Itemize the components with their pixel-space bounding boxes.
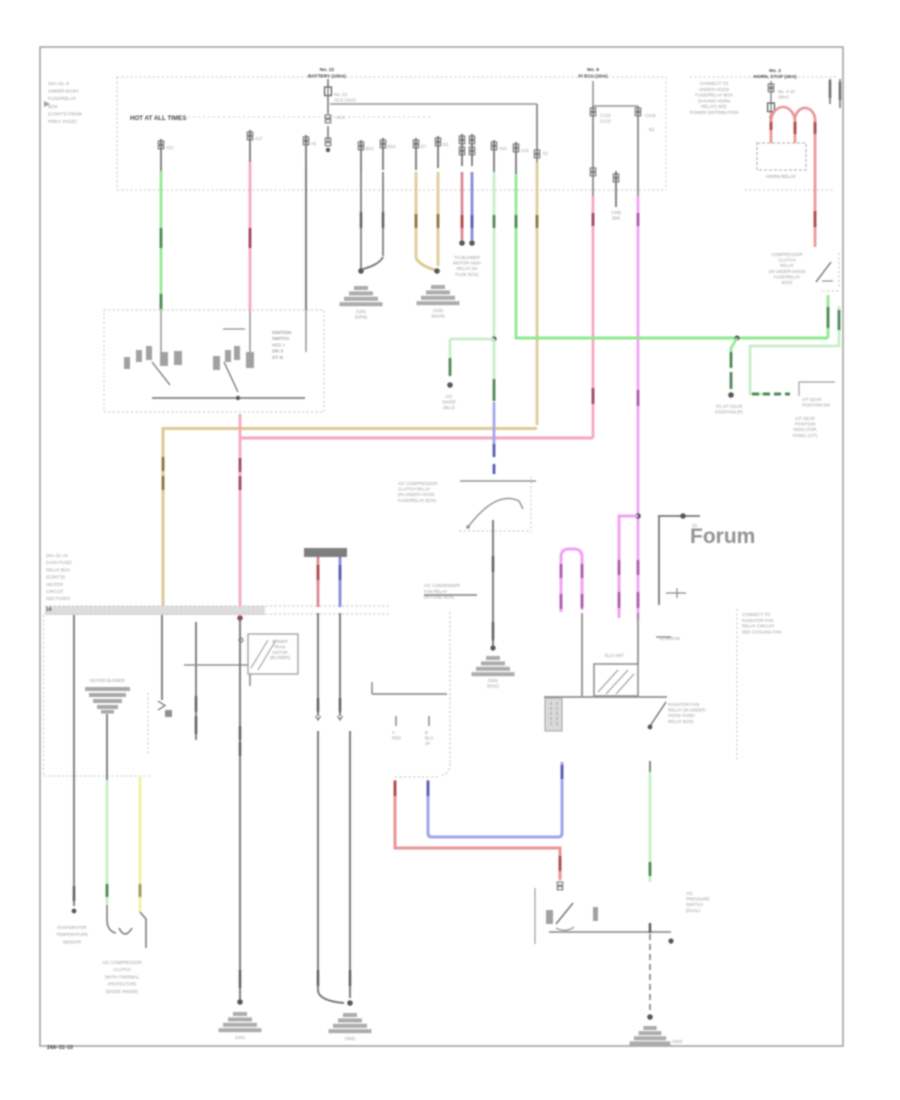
junction dot on green run [735,336,740,341]
svg-text:HORN, STOP (40A): HORN, STOP (40A) [753,74,796,80]
black wire pair stubs (left of center) [360,140,362,172]
svg-text:G301: G301 [488,678,499,683]
svg-text:(DUAL): (DUAL) [686,908,701,913]
svg-text:A5: A5 [311,141,317,146]
tan wire pair stubs [415,138,417,170]
svg-text:BATTERY (100A): BATTERY (100A) [308,73,346,79]
svg-text:(BLU): (BLU) [443,405,455,410]
ground G202 [431,285,445,289]
svg-text:(HAVING HORN: (HAVING HORN [698,98,730,103]
svg-text:CLUTCH RELAY: CLUTCH RELAY [398,487,431,492]
svg-text:(IN UNDER-HOOD: (IN UNDER-HOOD [769,269,806,274]
ignition switch box (dashed) [104,310,324,412]
svg-text:E1: E1 [543,151,549,156]
blue stub wire [471,172,474,240]
svg-text:POWER DISTRIBUTION: POWER DISTRIBUTION [690,110,739,115]
svg-text:(MAIN): (MAIN) [431,313,445,318]
svg-text:FI ECU (20A): FI ECU (20A) [578,73,607,79]
svg-text:CONNECT TO: CONNECT TO [700,81,729,86]
black wire from pink feed down to ground [239,620,241,1000]
gray wire below jumper right leg [581,613,583,696]
svg-text:24A–31–9: 24A–31–9 [48,81,69,86]
pale green wire down to junction [493,172,496,339]
pale green branch to diode [450,338,494,341]
svg-text:FAN RELAY: FAN RELAY [424,589,447,594]
junction dot relay ground [490,645,495,650]
svg-text:G202: G202 [433,308,444,313]
stub wires at far top right [829,79,831,104]
pressure switch output bar [549,931,671,933]
svg-text:(40A): (40A) [778,95,789,100]
svg-text:ST: III: ST: III [272,355,283,360]
ground G502 [343,1013,357,1017]
green/blue wire down to relay [493,339,496,379]
svg-text:A16: A16 [499,146,507,151]
line under condenser fan text [372,693,447,695]
svg-text:ACC: ACC [336,115,345,120]
fan connector pin labels [395,716,397,726]
svg-text:A/T GEAR: A/T GEAR [795,416,815,421]
svg-text:A/C COMPRESSOR: A/C COMPRESSOR [102,960,141,965]
green branch down to A/T position dot [731,338,737,352]
red wire lower (condenser fan motor) [395,780,560,880]
svg-text:No. 23: No. 23 [334,92,347,97]
svg-text:FUSE/RELAY: FUSE/RELAY [48,96,76,101]
dashed wire to ground bottom right [649,934,651,1013]
svg-text:DIODE: DIODE [442,400,456,405]
svg-text:SENSOR: SENSOR [63,939,81,944]
power transistor box [248,634,298,674]
svg-text:POWER: POWER [272,639,288,644]
gray wire to ignition switch [305,167,307,310]
fuse No.2 column [770,81,772,104]
svg-text:No. 22: No. 22 [320,67,335,73]
dashed bracket around fan connector labels [449,612,451,764]
connector stub pin labels under fuse No.9 [592,106,594,196]
wire to ignition switch (gray) - stub in box [305,135,307,167]
svg-text:SWITCH: SWITCH [686,902,703,907]
svg-text:DASH FUSE/: DASH FUSE/ [46,560,73,565]
svg-text:(WITH THERMAL: (WITH THERMAL [105,974,140,979]
sensor block (dark) above red/blue pair [304,548,347,557]
svg-text:CIRCUIT: CIRCUIT [46,589,64,594]
wire to ignition switch (pink) - stub in box [249,130,251,162]
svg-text:HOT AT ALL TIMES: HOT AT ALL TIMES [130,115,186,122]
svg-text:A/C: A/C [445,394,452,399]
svg-text:B: B [425,730,428,735]
svg-text:ACG (10A): ACG (10A) [334,98,356,103]
svg-text:B10: B10 [388,144,396,149]
svg-text:PANEL (A/T): PANEL (A/T) [793,433,818,438]
svg-text:A/C CONDENSER: A/C CONDENSER [424,583,460,588]
svg-text:ON: II: ON: II [272,349,283,354]
svg-text:14: 14 [46,607,52,613]
A/C pressure switch bracket [534,888,536,944]
ignition switch contact set 2 [213,356,220,370]
svg-text:24A–31–10: 24A–31–10 [47,1045,73,1051]
svg-text:RELAY BOX): RELAY BOX) [668,719,694,724]
tan wire corner to left [163,429,537,608]
horn relay box [757,143,806,170]
light green wire bottom right [649,761,651,772]
pink wire end dot at strip [237,615,243,621]
svg-text:ACC: I: ACC: I [272,342,285,347]
pink wire to ignition switch [249,162,252,310]
under-hood fuse/relay box top dashed line (right) [690,76,838,78]
svg-text:EVAPORATOR: EVAPORATOR [57,925,86,930]
svg-text:SISTOR: SISTOR [272,650,287,655]
svg-text:A/C: A/C [686,891,693,896]
pink wire below fuse No.9 [592,196,595,438]
magenta branch junction [635,513,641,519]
bus wire from fuse No.23 to IGN feed [330,103,537,105]
red wire drop into relay pin 2 [794,120,797,144]
svg-text:No. 4-10: No. 4-10 [778,89,795,94]
left wire from fuse box [73,615,75,906]
black wire pair down to ground [360,172,362,270]
thermal marks on black tee wire [666,592,686,594]
bright green horizontal wire [516,336,828,338]
svg-text:C405: C405 [611,210,622,215]
wire from blower resistor down (becomes light green) [106,714,108,780]
svg-text:SWITCH: SWITCH [272,336,289,341]
fuse box band (gray strip) [45,606,265,615]
svg-text:A15: A15 [521,148,529,153]
tan wire down to ignition switch branch corner [536,162,539,425]
tan IGN feed wire from bus [536,104,538,162]
bright green wire down [515,174,518,336]
tan wire continuation below strip [161,615,163,700]
svg-text:A17: A17 [255,136,263,141]
pale green wire stub (A/C diode branch) [493,140,495,172]
svg-text:(A12): (A12) [600,119,611,124]
black pair lower run to ground [317,731,319,990]
junction dot black pair [358,268,364,274]
ground G201 [354,286,368,290]
bracket dashed (right lower) [736,609,738,762]
branch from fuse No.9 [592,81,594,106]
magenta wire below fuse No.9 branch [637,196,640,620]
svg-text:FUSE/RELAY BOX): FUSE/RELAY BOX) [398,498,437,503]
bright green wire stub [515,142,517,174]
ignition switch common bar [152,397,305,399]
A/T gear position switch outline [798,382,800,396]
A/C pressure switch contacts [546,910,553,924]
ground G401 [233,1012,247,1016]
svg-text:CLUTCH: CLUTCH [113,967,130,972]
svg-text:E9: E9 [443,142,449,147]
gray wire below magenta main [637,613,639,665]
svg-text:(GRN): (GRN) [355,314,368,319]
ground G503 [643,1026,656,1030]
dashed outline below fuse box [43,615,45,777]
wire to ignition switch BAT (green) - stub in box [160,139,162,171]
red/blue short pair stubs [461,134,463,166]
green vertical up to compressor switch [827,295,830,338]
pink branch wire to right [240,437,593,440]
svg-text:RELAY CIRCUIT: RELAY CIRCUIT [742,624,775,629]
svg-text:UNDER-DASH: UNDER-DASH [48,89,79,94]
svg-text:IGNITION: IGNITION [272,330,291,335]
green wire to ignition switch [160,171,163,310]
magenta jumper arch [561,549,582,612]
svg-text:INDICATOR: INDICATOR [793,427,816,432]
ECM output bar [544,696,667,698]
svg-text:TO A/T GEAR: TO A/T GEAR [716,404,743,409]
under-dash fuse/relay box (dashed outline) [117,76,666,78]
bracket dashes left-center [147,693,149,756]
svg-text:POSITION SW: POSITION SW [802,402,830,407]
svg-text:Forum: Forum [690,525,755,548]
svg-text:No. 2: No. 2 [769,68,781,74]
black tee wire (Forum node) [658,515,700,517]
red wire from fuse No.2 into horn relay [770,112,773,144]
A/C compressor clutch relay outline [460,480,536,482]
junction dot pale green [491,336,496,341]
svg-text:A: A [392,730,395,735]
svg-text:(BLOWER): (BLOWER) [270,655,291,660]
svg-text:RADIATOR FAN: RADIATOR FAN [668,702,699,707]
A/C compressor clutch coil symbol [107,905,116,933]
svg-text:RADIATOR FAN: RADIATOR FAN [742,618,773,623]
svg-text:RELAY BOX: RELAY BOX [46,567,70,572]
svg-text:RELAY: RELAY [780,263,794,268]
connector arrows [316,716,321,720]
pink wire run from ignition switch down [239,414,242,606]
svg-text:No. 9: No. 9 [587,67,599,73]
ignition switch internal leads [160,310,162,352]
blue wire lower (condenser fan motor) [428,762,562,837]
svg-text:UNDER-HOOD: UNDER-HOOD [699,87,729,92]
svg-text:C723: C723 [600,113,611,118]
connector stub not used [615,171,617,207]
svg-text:B2: B2 [649,127,655,132]
svg-text:G201: G201 [356,309,367,314]
svg-text:TO BLOWER: TO BLOWER [454,255,480,260]
svg-text:POSITION (P): POSITION (P) [715,410,743,415]
red wire from sensor block [317,557,320,607]
svg-text:2P: 2P [425,741,430,746]
svg-text:24A–31–14: 24A–31–14 [46,553,69,558]
svg-text:POSITION: POSITION [795,422,816,427]
svg-text:HEATER BLOWER: HEATER BLOWER [89,678,124,683]
svg-text:PRESSURE: PRESSURE [686,897,710,902]
second green wire (loop to A/T switch) [750,306,839,394]
svg-text:BOX): BOX) [782,280,793,285]
svg-text:ELD UNIT: ELD UNIT [605,653,625,658]
svg-text:RELAY (IN: RELAY (IN [457,266,478,271]
svg-text:SEE FUSES: SEE FUSES [46,596,70,601]
red wire hop arc 2 [795,108,815,121]
magenta branch wire to left [619,516,638,618]
long red wire down right side [814,120,817,247]
svg-text:CONNECT TO: CONNECT TO [742,612,771,617]
svg-text:(DIODE INSIDE): (DIODE INSIDE) [106,989,139,994]
red stub wire [461,172,464,240]
connector block small (gray) [545,698,562,731]
radiator fan relay switch [650,702,666,726]
svg-text:(CONT’D FROM: (CONT’D FROM [48,111,82,116]
svg-text:FUSE BOX): FUSE BOX) [455,272,479,277]
relay output wire down to ground [492,520,494,648]
svg-text:TRAN-: TRAN- [274,644,287,649]
svg-text:HORN RELAY: HORN RELAY [766,174,796,179]
ECM/PCM box (hatched) [594,664,638,696]
svg-text:RELAY) SEE: RELAY) SEE [701,104,727,109]
svg-text:G503: G503 [672,1039,683,1044]
svg-text:(ENG): (ENG) [487,683,499,688]
connector tick on red end [557,882,562,885]
svg-text:(IN UNDER-HOOD: (IN UNDER-HOOD [398,492,435,497]
svg-text:HOOD FUSE/: HOOD FUSE/ [668,713,696,718]
ground G301 [486,656,500,660]
power transistor link bar [184,664,248,666]
junction dot tan pair [434,268,440,274]
black pair below strip [317,613,319,716]
svg-text:E7: E7 [421,144,427,149]
svg-text:A/C COMPRESSOR: A/C COMPRESSOR [398,481,437,486]
yellow wire down [139,777,142,912]
svg-text:PROTECTOR): PROTECTOR) [108,982,137,987]
power transistor feed wire [195,622,197,740]
svg-text:G502: G502 [345,1036,356,1041]
svg-text:RED: RED [392,735,401,740]
svg-text:BOX: BOX [48,104,58,109]
tan wire pair down [415,172,418,258]
ignition switch contact set 1 [124,357,130,369]
svg-text:A21: A21 [166,145,174,150]
svg-text:(B8): (B8) [612,215,621,220]
svg-text:TEMPERATURE: TEMPERATURE [56,932,88,937]
svg-text:HEATER: HEATER [46,582,63,587]
svg-text:24: 24 [692,523,697,528]
svg-text:CLUTCH: CLUTCH [778,258,795,263]
red wire hop arc 1 [771,107,795,122]
svg-text:SEE COOLING FAN: SEE COOLING FAN [742,629,781,634]
dark green connector dashes into switch [752,393,790,396]
svg-text:C418: C418 [645,113,656,118]
svg-text:A/T GEAR: A/T GEAR [802,397,821,402]
svg-text:B12: B12 [366,146,374,151]
svg-text:BLU: BLU [425,735,433,740]
svg-text:FUSE/RELAY: FUSE/RELAY [774,274,801,279]
fuse No.23 column [327,79,329,87]
svg-text:PREV. PAGE): PREV. PAGE) [48,119,77,124]
svg-text:G401: G401 [235,1035,246,1040]
svg-text:COMPRESSOR: COMPRESSOR [771,252,802,257]
svg-text:MOTOR HIGH: MOTOR HIGH [453,261,481,266]
blue wire from sensor block [339,557,342,607]
svg-text:FUSE/RELAY BOX: FUSE/RELAY BOX [695,93,732,98]
svg-text:RELAY (IN UNDER-: RELAY (IN UNDER- [668,708,707,713]
svg-text:(CONT’D): (CONT’D) [46,575,66,580]
